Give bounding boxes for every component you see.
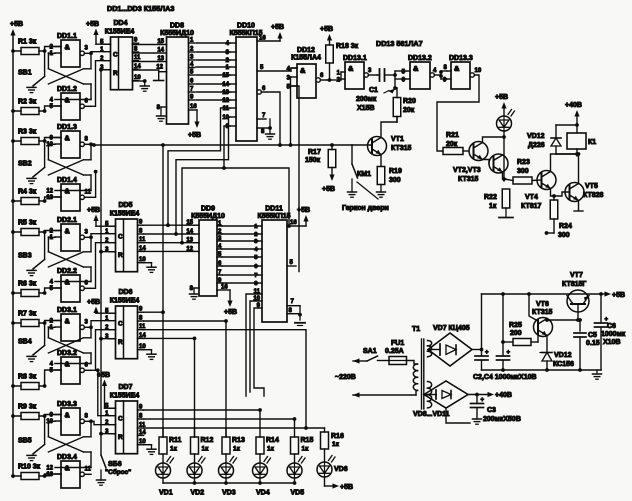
- cross-coupling wires DD1.1-DD1.2: [48, 51, 93, 99]
- svg-text:7: 7: [262, 113, 266, 119]
- svg-text:DD3.4: DD3.4: [57, 454, 77, 461]
- svg-text:&: &: [348, 64, 354, 73]
- wire DD2.1 out to DD5 pin1: [91, 234, 109, 238]
- svg-text:DD3.2: DD3.2: [57, 350, 77, 357]
- svg-text:8: 8: [85, 136, 89, 142]
- svg-text:DD1.1: DD1.1: [57, 33, 77, 40]
- svg-text:C2,C4 1000мкХ10В: C2,C4 1000мкХ10В: [473, 374, 537, 381]
- resistor R16 1k: [321, 428, 344, 462]
- wire DD10 pin11 from DD5 out9: [166, 108, 230, 227]
- ground DD8 pin12: [154, 70, 167, 81]
- svg-text:&: &: [65, 411, 70, 420]
- power +5V DD11 pin16: [287, 207, 310, 226]
- NAND gate DD1.2: [50, 86, 91, 120]
- cross-coupling wires DD2.1-DD2.2: [48, 235, 93, 281]
- svg-text:VT1: VT1: [391, 136, 404, 143]
- svg-text:9: 9: [50, 413, 54, 419]
- svg-text:КС156: КС156: [553, 361, 574, 368]
- NAND gate DD12 К155ЛА4: [287, 47, 327, 98]
- resistor R24 300: [545, 196, 572, 239]
- svg-text:6: 6: [254, 264, 258, 270]
- wire VD7 output: [472, 349, 482, 351]
- svg-text:DD6: DD6: [118, 289, 132, 296]
- NAND gate DD3.2: [50, 350, 91, 384]
- svg-text:14: 14: [134, 64, 141, 70]
- svg-text:C: C: [118, 416, 123, 423]
- wire PSU ground rail: [482, 368, 602, 379]
- svg-text:Т1: Т1: [412, 326, 420, 333]
- resistor R3 3k: [11, 129, 45, 145]
- svg-text:VT4: VT4: [525, 194, 538, 201]
- svg-text:C: C: [113, 52, 118, 59]
- zener diode VD12 КС156: [540, 352, 574, 370]
- transistor VT6 КТ315: [532, 301, 553, 352]
- svg-text:3: 3: [85, 45, 89, 51]
- svg-text:Х10В: Х10В: [603, 339, 621, 346]
- wires DD9 outputs to DD11 inputs: [222, 226, 258, 283]
- wire DD10 pin5 output to DD12: [257, 65, 297, 71]
- power +5V DD9 pin16 down arrow: [217, 285, 237, 317]
- NAND gate DD13.3: [447, 55, 482, 89]
- counter DD5 К155ИЕ4: [105, 202, 156, 272]
- wires DD13.2 out to DD13.3 inputs: [439, 65, 447, 84]
- svg-text:8: 8: [190, 286, 194, 292]
- svg-text:SБ6: SБ6: [108, 461, 122, 468]
- svg-text:DD12: DD12: [297, 47, 315, 54]
- capacitor C6 1000mk X10V: [595, 294, 626, 370]
- wire DD11 pins7 8 ground: [287, 299, 305, 326]
- transistor VT1 КТ315: [352, 117, 412, 166]
- transformer T1: [412, 326, 432, 409]
- NAND gate DD13.1: [337, 55, 377, 89]
- wire DD10 pin6 output down to bus: [257, 86, 282, 147]
- transistor VT3 КТ315: [483, 154, 509, 179]
- svg-text:3: 3: [85, 229, 89, 235]
- NAND gate DD1.1: [50, 33, 91, 67]
- svg-text:К555ИД10: К555ИД10: [191, 213, 225, 220]
- svg-text:"Сброс": "Сброс": [105, 468, 131, 476]
- svg-text:R: R: [113, 70, 118, 77]
- svg-text:R17: R17: [308, 149, 321, 156]
- wire DD5 out11 riser to DD11: [180, 168, 291, 245]
- svg-text:4: 4: [50, 98, 54, 104]
- svg-text:DD4: DD4: [113, 20, 127, 27]
- svg-text:R: R: [118, 434, 123, 441]
- svg-text:5: 5: [50, 368, 54, 374]
- svg-text:R3 3к: R3 3к: [18, 129, 37, 136]
- svg-text:К155ЛА4: К155ЛА4: [291, 55, 321, 62]
- wire DD10 pin10 from DD5 out8: [174, 117, 230, 236]
- svg-text:0.15: 0.15: [586, 340, 600, 347]
- svg-text:R18 3к: R18 3к: [336, 43, 359, 50]
- wire VT6 collector to rail: [529, 294, 538, 321]
- svg-text:4: 4: [226, 41, 230, 47]
- svg-text:5: 5: [260, 65, 264, 71]
- svg-text:VD12: VD12: [527, 133, 545, 140]
- NAND gate DD1.3: [46, 124, 91, 158]
- svg-text:К555ИД10: К555ИД10: [160, 30, 194, 37]
- svg-text:SB3: SB3: [18, 252, 32, 259]
- svg-text:+: +: [507, 350, 511, 356]
- wire DD3.2 out down to DD7 pin1: [98, 370, 109, 415]
- LED VD1: [156, 457, 174, 497]
- button SB6 Сброс: [97, 455, 132, 485]
- svg-text:2: 2: [50, 45, 54, 51]
- resistor R13 1k: [222, 428, 245, 463]
- svg-text:R20: R20: [403, 98, 416, 105]
- svg-text:R16: R16: [331, 433, 344, 440]
- svg-text:200мк: 200мк: [356, 96, 377, 103]
- wire DD6 out9 junction to bus: [144, 310, 165, 314]
- NAND gate DD13.2: [402, 55, 441, 89]
- svg-text:R25: R25: [509, 322, 522, 329]
- svg-text:6: 6: [320, 73, 324, 79]
- svg-text:16: 16: [221, 285, 228, 291]
- power +5V lamp: [495, 94, 508, 116]
- svg-text:2: 2: [254, 232, 257, 238]
- svg-text:R7 3к: R7 3к: [18, 311, 37, 318]
- svg-text:VD12: VD12: [554, 352, 572, 359]
- wires resistor nodes to gate inputs: [43, 47, 61, 478]
- svg-text:+5В: +5В: [97, 372, 110, 379]
- svg-text:КТ817: КТ817: [521, 203, 542, 210]
- svg-text:R4 3к: R4 3к: [18, 189, 37, 196]
- wire FU1 to transformer primary: [407, 361, 418, 365]
- svg-text:12: 12: [46, 466, 53, 472]
- wires DD5 outputs to DD9 inputs: [144, 225, 195, 251]
- wires DD4 outputs to DD8 inputs: [133, 45, 167, 71]
- svg-text:К1: К1: [588, 139, 596, 146]
- resistor R19 300: [377, 167, 402, 198]
- svg-text:&: &: [413, 64, 419, 73]
- capacitor C3 200mkX50V: [471, 395, 521, 425]
- wire DD1.2 out to DD4 pin2: [91, 61, 104, 107]
- svg-text:КМ1: КМ1: [357, 171, 371, 178]
- svg-text:R15: R15: [301, 437, 314, 444]
- transistor VT4 КТ817: [521, 154, 577, 210]
- ground DD4 pin10: [133, 79, 150, 91]
- svg-text:SB5: SB5: [18, 437, 32, 444]
- svg-text:1к: 1к: [233, 446, 241, 453]
- svg-text:2: 2: [226, 58, 230, 64]
- power +5V arrow for DD7: [97, 372, 116, 408]
- cross-coupling wires DD3.3-DD3.4: [48, 419, 93, 467]
- button SB1: [18, 69, 45, 92]
- svg-text:FU1: FU1: [391, 340, 404, 347]
- svg-text:+40В: +40В: [565, 102, 582, 109]
- LED VD5: [287, 457, 305, 497]
- NAND gate DD3.3: [46, 401, 91, 435]
- svg-text:R19: R19: [389, 168, 402, 175]
- svg-text:&: &: [65, 134, 70, 143]
- label DD13 561ЛА7: [376, 39, 423, 48]
- wire VT6 emitter node to VT7 base: [545, 318, 580, 322]
- capacitor C1 200mk X15V: [356, 69, 395, 112]
- LED VD3: [219, 457, 237, 497]
- svg-text:5: 5: [50, 104, 54, 110]
- resistor R22 1k: [484, 179, 513, 218]
- svg-text:R12: R12: [201, 437, 214, 444]
- svg-text:R: R: [118, 252, 123, 259]
- svg-text:+5В: +5В: [612, 292, 625, 299]
- svg-text:150к: 150к: [305, 157, 321, 164]
- svg-text:+5В: +5В: [87, 207, 100, 214]
- svg-text:1: 1: [254, 224, 258, 230]
- svg-text:DD13.3: DD13.3: [449, 55, 473, 62]
- power +5V output arrow: [601, 291, 625, 299]
- svg-text:К155ИЕ4: К155ИЕ4: [110, 298, 140, 305]
- resistor R18 3k pull-up: [326, 34, 359, 82]
- svg-text:&: &: [65, 317, 70, 326]
- svg-text:8: 8: [85, 413, 89, 419]
- power +5V DD10 pin16: [257, 24, 284, 42]
- capacitor C4 1000mkX10V: [497, 294, 511, 370]
- button SB2: [18, 160, 45, 183]
- svg-text:С6: С6: [607, 323, 616, 330]
- resistor R10 3k: [11, 464, 45, 480]
- svg-text:&: &: [65, 227, 70, 236]
- IC DD8 К555ИД10: [156, 23, 201, 140]
- svg-text:R13: R13: [232, 437, 245, 444]
- svg-text:К155ИЕ4: К155ИЕ4: [105, 29, 135, 36]
- svg-text:11: 11: [134, 55, 141, 61]
- svg-text:1к: 1к: [489, 203, 497, 210]
- svg-text:4: 4: [254, 247, 258, 253]
- svg-text:14: 14: [222, 82, 229, 88]
- svg-text:3: 3: [85, 319, 89, 325]
- capacitor C5 0.15: [574, 318, 600, 370]
- svg-text:К555КП15: К555КП15: [257, 213, 290, 220]
- svg-text:3: 3: [226, 50, 230, 56]
- svg-text:КТ815Г: КТ815Г: [562, 281, 586, 288]
- svg-text:С5: С5: [588, 332, 597, 339]
- wire VD8 bridge bottom: [446, 408, 470, 423]
- svg-text:DD13.2: DD13.2: [408, 55, 432, 62]
- fuse FU1 0.25A: [385, 340, 407, 365]
- svg-text:7: 7: [254, 273, 257, 279]
- bridge rectifier VD7 КЦ405: [428, 325, 472, 366]
- wire DD12 pin3 down to door line: [289, 77, 293, 147]
- svg-text:3: 3: [254, 239, 258, 245]
- svg-text:&: &: [454, 64, 460, 73]
- svg-text:~220В: ~220В: [335, 374, 356, 381]
- svg-text:SB2: SB2: [18, 160, 32, 167]
- svg-text:C: C: [118, 234, 123, 241]
- svg-text:4: 4: [50, 362, 54, 368]
- IC DD9 К555ИД10: [186, 206, 225, 300]
- wire lamp down to transistors: [502, 131, 506, 181]
- LED indicator lamp: [497, 110, 515, 132]
- label VT2 VT3 КТ315: [453, 167, 481, 183]
- resistor R15 1k: [291, 419, 314, 463]
- power +40V output arrow: [468, 392, 512, 399]
- LED VD4: [253, 457, 271, 497]
- svg-text:1к: 1к: [170, 446, 178, 453]
- svg-text:DD1.2: DD1.2: [57, 86, 77, 93]
- svg-text:1: 1: [226, 65, 230, 71]
- transistor VT7 КТ815Г: [562, 272, 589, 320]
- svg-text:DD2.1: DD2.1: [57, 217, 77, 224]
- wire door line across: [91, 143, 352, 147]
- svg-text:R9 3к: R9 3к: [18, 404, 37, 411]
- svg-text:+5В: +5В: [271, 24, 284, 31]
- transistor VT2 КТ315: [469, 137, 504, 161]
- svg-text:8: 8: [261, 129, 265, 135]
- svg-text:R1 3к: R1 3к: [18, 39, 37, 46]
- wire DD12 pin5 down to DD11 pin5: [291, 86, 299, 272]
- wire DD1.4 out riser: [91, 170, 98, 198]
- power +5V arrow for DD6: [87, 299, 116, 313]
- svg-text:R14: R14: [266, 437, 279, 444]
- resistor R7 3k: [11, 311, 45, 327]
- cross-coupling wires DD3.1-DD3.2: [48, 325, 93, 363]
- svg-text:VT2,VT3: VT2,VT3: [453, 167, 481, 174]
- svg-text:VD6: VD6: [334, 466, 348, 473]
- svg-text:Д226: Д226: [528, 142, 545, 149]
- svg-text:С3: С3: [487, 407, 496, 414]
- svg-text:КТ315: КТ315: [391, 145, 412, 152]
- svg-text:R11: R11: [169, 437, 182, 444]
- wire output bus 1: [144, 408, 262, 412]
- wire output bus 2: [144, 417, 297, 421]
- svg-text:14: 14: [139, 430, 146, 436]
- svg-text:КТ315: КТ315: [532, 309, 553, 316]
- svg-text:DD1.4: DD1.4: [57, 177, 77, 184]
- svg-text:9: 9: [50, 136, 54, 142]
- NAND gate DD2.2: [50, 268, 91, 302]
- svg-text:20к: 20к: [403, 107, 415, 114]
- wire DD3.1 out to DD6 pin1: [91, 321, 109, 328]
- svg-text:300: 300: [389, 177, 401, 184]
- svg-text:VD5: VD5: [291, 490, 305, 497]
- svg-text:1000мк: 1000мк: [601, 331, 626, 338]
- NAND gate DD3.4: [46, 454, 91, 488]
- svg-text:200: 200: [510, 330, 522, 337]
- wire output bus 3: [144, 427, 325, 429]
- svg-text:R5 3к: R5 3к: [18, 220, 37, 227]
- svg-text:+5В: +5В: [188, 132, 201, 139]
- svg-text:DD5: DD5: [118, 202, 132, 209]
- svg-text:VD2: VD2: [191, 490, 205, 497]
- svg-text:+40В: +40В: [495, 392, 512, 399]
- wire DD1.1 out to DD4 pin1: [91, 52, 104, 54]
- resistor R21 20k: [443, 132, 469, 155]
- svg-text:+: +: [481, 398, 485, 404]
- wire DD6 out11 right to R16 drop: [144, 330, 308, 430]
- power +5V arrow for DD4: [86, 21, 111, 44]
- relay K1: [567, 133, 596, 149]
- NAND gate DD1.4: [46, 177, 91, 211]
- svg-text:+5В: +5В: [10, 21, 23, 28]
- transistor VT5 КТ828: [552, 156, 603, 211]
- power +5V VD6 cathode: [325, 483, 354, 491]
- svg-text:13: 13: [222, 90, 229, 96]
- resistor R2 3k: [11, 99, 45, 115]
- svg-text:R21: R21: [446, 132, 459, 139]
- svg-text:VT6: VT6: [536, 301, 549, 308]
- svg-text:15: 15: [222, 73, 229, 79]
- LED VD6: [317, 456, 348, 487]
- svg-text:VT7: VT7: [570, 272, 583, 279]
- svg-text:DD2.2: DD2.2: [57, 268, 77, 275]
- svg-text:12: 12: [222, 98, 229, 104]
- svg-text:+: +: [485, 350, 489, 356]
- resistor R9 3k: [11, 404, 45, 420]
- svg-text:12: 12: [46, 189, 53, 195]
- svg-text:VD1: VD1: [159, 490, 173, 497]
- counter DD7 К155ИЕ4: [105, 384, 156, 454]
- svg-text:13: 13: [46, 472, 53, 478]
- NAND gate DD3.1: [50, 307, 91, 341]
- svg-text:16: 16: [290, 220, 297, 226]
- svg-text:5: 5: [50, 286, 54, 292]
- svg-text:8: 8: [444, 65, 448, 71]
- wire DD3.3 out to DD7 pin2: [91, 421, 109, 424]
- svg-text:DD9: DD9: [201, 206, 215, 213]
- svg-text:11: 11: [223, 106, 230, 112]
- capacitor C2 1000mkX10V: [475, 350, 489, 371]
- wire bus down to R11: [161, 143, 165, 437]
- label ~220V: [335, 374, 356, 381]
- svg-text:10: 10: [475, 68, 482, 74]
- svg-text:DD8: DD8: [170, 23, 184, 30]
- resistor R6 3k: [11, 281, 45, 297]
- svg-text:4: 4: [433, 68, 437, 74]
- svg-text:+5В: +5В: [224, 309, 237, 316]
- wire DD11 pin5 output up: [287, 260, 296, 266]
- svg-text:8: 8: [157, 105, 161, 111]
- svg-text:SB1: SB1: [18, 69, 32, 76]
- IC DD11 К555КП15: [253, 206, 290, 323]
- svg-text:R22: R22: [484, 194, 497, 201]
- svg-text:DD13.1: DD13.1: [343, 55, 367, 62]
- svg-text:DD3.1: DD3.1: [57, 307, 77, 314]
- svg-text:DD1.3: DD1.3: [57, 124, 77, 131]
- svg-text:R23: R23: [517, 159, 530, 166]
- resistor R5 3k: [11, 220, 45, 236]
- svg-text:&: &: [65, 43, 70, 52]
- svg-text:DD10: DD10: [237, 23, 255, 30]
- svg-text:0.25А: 0.25А: [385, 348, 404, 355]
- resistor R11 1k: [159, 428, 182, 463]
- wire DD10 pins7 8 ground: [257, 113, 275, 139]
- svg-text:20к: 20к: [446, 141, 458, 148]
- svg-text:К555КП15: К555КП15: [229, 30, 262, 37]
- svg-text:+5В: +5В: [87, 299, 100, 306]
- wires DD11 address pins down: [246, 294, 262, 396]
- LED VD2: [187, 457, 205, 497]
- svg-text:+5В: +5В: [86, 21, 99, 28]
- svg-text:С1: С1: [369, 87, 378, 94]
- svg-text:7: 7: [291, 299, 295, 305]
- svg-text:DD11: DD11: [265, 206, 283, 213]
- svg-text:2: 2: [50, 319, 54, 325]
- svg-text:300: 300: [558, 232, 570, 239]
- button SB4: [18, 338, 45, 361]
- svg-text:Геркон двери: Геркон двери: [342, 205, 389, 212]
- wire unregulated rail: [480, 292, 603, 351]
- svg-text:5: 5: [254, 255, 258, 261]
- svg-text:16: 16: [190, 104, 197, 110]
- svg-text:2: 2: [50, 229, 54, 235]
- svg-text:1: 1: [337, 71, 341, 77]
- wire LED cathode bus: [163, 481, 296, 485]
- svg-text:R10 3к: R10 3к: [18, 464, 41, 471]
- resistor R14 1k: [256, 410, 279, 463]
- svg-text:13: 13: [46, 195, 53, 201]
- svg-text:R6 3к: R6 3к: [18, 281, 37, 288]
- svg-text:300: 300: [517, 168, 529, 175]
